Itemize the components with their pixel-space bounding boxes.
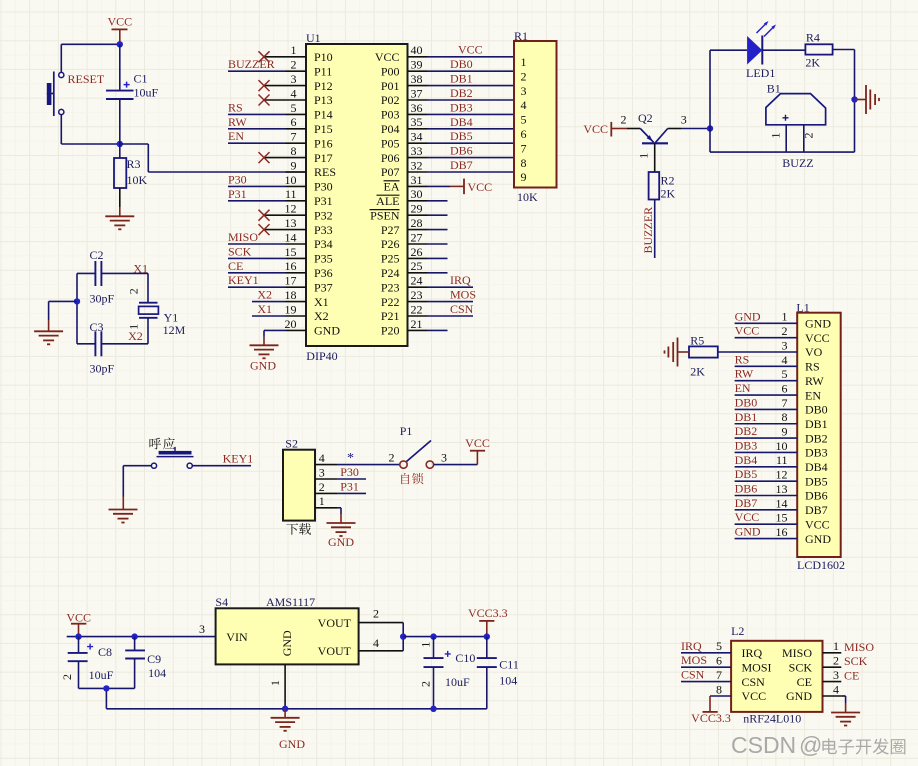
svg-text:P10: P10: [314, 50, 333, 64]
svg-text:15: 15: [776, 511, 788, 525]
U1 pin 23 P22: [381, 288, 428, 309]
connector L1 LCD1602 body: [796, 300, 845, 572]
svg-text:VCC: VCC: [66, 610, 91, 624]
svg-text:SCK: SCK: [844, 654, 868, 668]
U1 pin 36 P03: [381, 101, 428, 122]
regulator S4 AMS1117 body: [199, 595, 359, 664]
svg-text:RW: RW: [228, 115, 247, 129]
svg-text:P14: P14: [314, 108, 333, 122]
svg-text:RS: RS: [228, 100, 243, 114]
svg-text:X1: X1: [133, 261, 148, 275]
L1 pin 3 VO: [782, 338, 823, 359]
svg-text:DB5: DB5: [805, 474, 828, 488]
svg-text:VCC: VCC: [805, 517, 830, 531]
resistor R3: [114, 144, 148, 188]
U1 pin 34 P05: [381, 130, 428, 151]
svg-text:DB4: DB4: [735, 453, 758, 467]
svg-text:2K: 2K: [690, 365, 705, 379]
svg-text:VO: VO: [805, 345, 823, 359]
L1 pin 6 EN: [735, 381, 822, 402]
svg-text:LED1: LED1: [746, 66, 775, 80]
U1 pin 8 P17: [264, 144, 333, 165]
wire R4 to ground branch: [833, 50, 855, 153]
svg-text:16: 16: [285, 259, 297, 273]
svg-text:P00: P00: [381, 64, 400, 78]
svg-text:DIP40: DIP40: [306, 349, 337, 363]
wire stub U1 pin 21: [428, 329, 448, 331]
U1 pin 24 P23: [381, 274, 428, 295]
svg-text:DB6: DB6: [735, 482, 758, 496]
svg-text:5: 5: [782, 367, 788, 381]
svg-text:P12: P12: [314, 79, 333, 93]
svg-text:P36: P36: [314, 266, 333, 280]
svg-text:DB5: DB5: [735, 467, 758, 481]
S4 pin 2 wire: [359, 607, 404, 623]
svg-text:10uF: 10uF: [89, 668, 114, 682]
svg-text:CSN: CSN: [450, 302, 474, 316]
ic L2 nRF24L010 body: [731, 624, 822, 725]
wire U1 pin 39 to R1 with net label DB0: [428, 57, 515, 71]
svg-text:IRQ: IRQ: [742, 646, 763, 660]
wire and net label P30 (U1 pin 10): [228, 172, 286, 186]
led LED1: [746, 21, 776, 80]
svg-text:EN: EN: [735, 381, 751, 395]
ground (below R3): [105, 216, 134, 229]
svg-text:18: 18: [285, 288, 297, 302]
svg-text:3: 3: [833, 668, 839, 682]
svg-text:11: 11: [285, 187, 297, 201]
svg-text:CE: CE: [844, 669, 859, 683]
svg-text:26: 26: [411, 245, 423, 259]
wire and net label X2 (U1 pin 18): [252, 288, 286, 302]
svg-text:14: 14: [285, 230, 297, 244]
U1 pin 11 P31: [285, 187, 333, 208]
wire bottom rail of buzzer loop: [709, 129, 711, 153]
svg-text:L1: L1: [796, 300, 809, 314]
svg-text:34: 34: [411, 130, 423, 144]
svg-text:VCC: VCC: [465, 436, 490, 450]
svg-text:CSN: CSN: [681, 668, 705, 682]
svg-text:11: 11: [776, 453, 788, 467]
wire stub U1 pin 29: [428, 214, 448, 216]
U1 pin 31 EA: [384, 173, 428, 194]
power VCC (U1 pin 31): [428, 179, 493, 195]
L1 pin 13 DB6: [735, 482, 828, 503]
no-connect X on U1 pin 4: [259, 95, 270, 106]
svg-text:DB1: DB1: [450, 72, 473, 86]
ground (S4): [271, 709, 306, 751]
svg-text:1: 1: [782, 310, 788, 324]
wire KEY1 to ground: [123, 466, 151, 510]
svg-text:10: 10: [285, 173, 297, 187]
svg-text:DB2: DB2: [735, 424, 758, 438]
switch RESET (push button): [47, 72, 64, 117]
svg-text:VCC: VCC: [583, 122, 608, 136]
svg-text:R3: R3: [127, 157, 141, 171]
svg-text:32: 32: [411, 158, 423, 172]
svg-text:ALE: ALE: [376, 194, 399, 208]
svg-text:VCC: VCC: [468, 180, 493, 194]
svg-text:2: 2: [521, 69, 527, 83]
U1 pin 33 P06: [381, 144, 428, 165]
svg-text:7: 7: [782, 396, 788, 410]
svg-text:3: 3: [521, 84, 527, 98]
svg-text:C1: C1: [134, 72, 148, 86]
svg-text:LCD1602: LCD1602: [797, 558, 845, 572]
svg-text:14: 14: [776, 496, 788, 510]
svg-text:X1: X1: [257, 302, 272, 316]
svg-text:VOUT: VOUT: [318, 616, 352, 630]
svg-text:P15: P15: [314, 122, 333, 136]
svg-text:CSDN: CSDN: [731, 732, 796, 758]
svg-text:VCC: VCC: [742, 689, 767, 703]
svg-text:DB7: DB7: [735, 496, 758, 510]
svg-text:MISO: MISO: [782, 646, 812, 660]
svg-text:21: 21: [411, 317, 423, 331]
svg-text:5: 5: [521, 113, 527, 127]
U1 pin 5 P14: [286, 101, 333, 122]
wire to crystal ground: [49, 301, 77, 331]
connector S2 body: [283, 436, 315, 534]
wire and net label MOS (U1 pin 23): [428, 288, 477, 302]
L1 pin 16 GND: [735, 525, 832, 546]
wire and net label MISO (U1 pin 14): [228, 230, 286, 244]
svg-text:P04: P04: [381, 122, 400, 136]
svg-text:2: 2: [60, 674, 74, 680]
svg-text:12M: 12M: [163, 323, 186, 337]
svg-text:MISO: MISO: [844, 640, 874, 654]
svg-text:2: 2: [782, 324, 788, 338]
wire and net label RW (U1 pin 6): [228, 115, 286, 129]
wire U1 pin 35 to R1 with net label DB4: [428, 115, 515, 129]
junction dot M: [484, 633, 490, 639]
junction dot B: [117, 141, 123, 147]
svg-text:RS: RS: [735, 352, 750, 366]
svg-text:C9: C9: [147, 652, 161, 666]
svg-text:12: 12: [776, 468, 788, 482]
no-connect X on U1 pin 12: [259, 210, 270, 221]
junction dot E: [74, 298, 80, 304]
svg-text:P02: P02: [381, 93, 400, 107]
L2 pin 1 MISO: [782, 639, 874, 660]
capacitor C2: [77, 248, 148, 306]
U1 pin 20 GND: [285, 317, 341, 338]
svg-text:9: 9: [521, 170, 527, 184]
svg-text:20: 20: [285, 317, 297, 331]
svg-text:25: 25: [411, 259, 423, 273]
wire reset bottom to node B: [61, 115, 120, 144]
capacitor C10: [418, 637, 475, 709]
junction dot D: [851, 96, 857, 102]
svg-text:DB1: DB1: [735, 410, 758, 424]
U1 pin 14 P34: [285, 230, 333, 251]
svg-text:6: 6: [716, 654, 722, 668]
svg-text:40: 40: [411, 43, 423, 57]
L1 pin 9 DB2: [735, 424, 828, 445]
svg-text:27: 27: [411, 230, 423, 244]
U1 pin 17 P37: [285, 274, 333, 295]
wire and net label CSN (U1 pin 22): [428, 302, 474, 316]
svg-text:P31: P31: [228, 187, 247, 201]
U1 pin 18 X1: [285, 288, 329, 309]
wire R2 to BUZZER net: [654, 200, 656, 259]
crystal Y1: [127, 273, 186, 343]
resistor R5: [689, 334, 797, 379]
svg-text:CE: CE: [228, 259, 243, 273]
wire and net label SCK (U1 pin 15): [228, 244, 286, 258]
U1 pin 19 X2: [285, 302, 329, 323]
svg-text:35: 35: [411, 115, 423, 129]
wire and net label BUZZER (U1 pin 2): [228, 57, 286, 71]
transistor Q2: [621, 111, 687, 172]
svg-text:8: 8: [782, 410, 788, 424]
svg-text:15: 15: [285, 245, 297, 259]
svg-text:P33: P33: [314, 223, 333, 237]
svg-text:4: 4: [833, 682, 839, 696]
svg-text:1: 1: [521, 55, 527, 69]
svg-text:MOS: MOS: [450, 288, 476, 302]
svg-text:22: 22: [411, 302, 423, 316]
svg-text:6: 6: [521, 127, 527, 141]
svg-text:VCC: VCC: [735, 510, 760, 524]
svg-text:X1: X1: [314, 295, 329, 309]
svg-text:C3: C3: [90, 320, 104, 334]
U1 pin 35 P04: [381, 115, 428, 136]
svg-text:2K: 2K: [661, 187, 676, 201]
svg-text:2: 2: [389, 451, 395, 465]
svg-text:1: 1: [833, 639, 839, 653]
power VCC (at P1): [465, 436, 490, 464]
svg-text:S2: S2: [285, 436, 298, 450]
wire crystal left rail: [76, 273, 78, 343]
svg-text:R2: R2: [661, 174, 675, 188]
capacitor C1: [106, 44, 159, 144]
wire and net label X1 (U1 pin 19): [252, 302, 286, 316]
U1 pin 9 RES: [286, 158, 337, 179]
svg-text:7: 7: [291, 130, 297, 144]
svg-text:P05: P05: [381, 136, 400, 150]
svg-text:BUZZER: BUZZER: [641, 207, 655, 254]
junction dot F: [75, 633, 81, 639]
svg-text:4: 4: [373, 636, 379, 650]
svg-text:2: 2: [291, 58, 297, 72]
U1 pin 29 PSEN: [370, 202, 428, 223]
svg-text:6: 6: [291, 115, 297, 129]
capacitor C11: [477, 637, 519, 709]
U1 pin 27 P26: [381, 230, 428, 251]
U1 pin 3 P12: [264, 72, 333, 93]
svg-text:2: 2: [833, 654, 839, 668]
svg-text:C10: C10: [455, 651, 475, 665]
svg-text:EN: EN: [805, 388, 821, 402]
S2 pin 1: [315, 494, 338, 508]
power VCC (top left): [107, 15, 132, 45]
svg-text:1: 1: [418, 642, 432, 648]
wire R3 to ground: [119, 188, 121, 216]
wire U1 pin 40 to R1 with net label VCC: [428, 42, 515, 56]
wire stub U1 pin 26: [428, 257, 448, 259]
svg-text:VCC: VCC: [735, 324, 760, 338]
S2 pin 4: [315, 451, 338, 465]
svg-text:DB2: DB2: [805, 431, 828, 445]
wire Q2 collector to node C: [681, 128, 710, 130]
svg-text:10uF: 10uF: [134, 86, 159, 100]
junction dot L: [430, 706, 436, 712]
switch KEY1 push button: [151, 447, 193, 468]
watermark CSDN: [731, 732, 905, 758]
S2 pin 2: [315, 480, 338, 494]
svg-text:10uF: 10uF: [445, 675, 470, 689]
svg-text:P11: P11: [314, 64, 332, 78]
U1 pin 28 P27: [381, 216, 428, 237]
L1 pin 15 VCC: [735, 510, 830, 531]
svg-text:1: 1: [769, 133, 783, 139]
svg-text:IRQ: IRQ: [450, 273, 471, 287]
svg-text:19: 19: [285, 302, 297, 316]
L2 pin 4 GND: [786, 682, 841, 703]
svg-text:GND: GND: [735, 309, 761, 323]
svg-text:1: 1: [319, 494, 325, 508]
svg-text:12: 12: [285, 202, 297, 216]
no-connect X on U1 pin 8: [259, 152, 270, 163]
wire stub U1 pin 27: [428, 243, 448, 245]
ground (U1 pin 20): [250, 345, 279, 372]
svg-text:3: 3: [441, 451, 447, 465]
svg-text:P17: P17: [314, 151, 333, 165]
svg-text:P20: P20: [381, 324, 400, 338]
L1 pin 2 VCC: [735, 324, 830, 345]
U1 pin 12 P32: [264, 202, 333, 223]
wire and net label P31 (U1 pin 11): [228, 187, 286, 201]
svg-text:29: 29: [411, 202, 423, 216]
svg-text:KEY1: KEY1: [228, 273, 259, 287]
power VCC (at C8): [66, 610, 91, 636]
svg-text:GND: GND: [735, 525, 761, 539]
U1 pin 16 P36: [285, 259, 333, 280]
U1 pin 2 P11: [286, 58, 333, 79]
svg-text:RS: RS: [805, 360, 820, 374]
svg-text:P35: P35: [314, 252, 333, 266]
svg-text:37: 37: [411, 86, 423, 100]
svg-text:4: 4: [521, 98, 527, 112]
svg-text:2: 2: [127, 288, 141, 294]
no-connect X on U1 pin 3: [259, 80, 270, 91]
U1 pin 26 P25: [381, 245, 428, 266]
svg-text:31: 31: [411, 173, 423, 187]
U1 pin 10 P30: [285, 173, 333, 194]
resistor R4: [805, 31, 832, 70]
svg-text:MOSI: MOSI: [742, 660, 772, 674]
svg-text:P34: P34: [314, 237, 333, 251]
wire node C up and LED rail: [710, 50, 747, 128]
svg-text:4: 4: [319, 451, 325, 465]
svg-text:24: 24: [411, 274, 423, 288]
no-connect X on U1 pin 13: [259, 224, 270, 235]
U1 pin 7 P16: [286, 130, 333, 151]
svg-text:3: 3: [319, 465, 325, 479]
L1 pin 7 DB0: [735, 395, 828, 416]
S4 pin 4 wire: [359, 636, 404, 651]
svg-text:IRQ: IRQ: [681, 639, 702, 653]
U1 pin 6 P15: [286, 115, 333, 136]
L1 pin 10 DB3: [735, 438, 828, 459]
svg-text:39: 39: [411, 58, 423, 72]
capacitor C9: [125, 637, 166, 689]
wire and net label P31 (S2 pin 2): [338, 479, 366, 493]
svg-text:2: 2: [802, 133, 816, 139]
L2 pin 3 CE: [797, 668, 860, 689]
svg-text:8: 8: [716, 682, 722, 696]
wire VOUT rail: [403, 636, 487, 638]
svg-text:P31: P31: [314, 194, 333, 208]
wire ground rail (bottom): [106, 708, 486, 710]
svg-text:DB6: DB6: [805, 489, 828, 503]
power VCC3.3 (output): [468, 606, 508, 637]
U1 pin 1 P10: [264, 43, 333, 64]
ground (right of R4): [855, 85, 880, 114]
wire U1 pin 33 to R1 with net label DB6: [428, 144, 515, 158]
svg-text:4: 4: [291, 86, 297, 100]
svg-text:P26: P26: [381, 237, 400, 251]
svg-text:P27: P27: [381, 223, 400, 237]
svg-text:13: 13: [285, 216, 297, 230]
svg-text:P1: P1: [400, 424, 413, 438]
ic U1 DIP40 body: [306, 31, 408, 363]
svg-text:PSEN: PSEN: [370, 208, 400, 222]
wire and net label P30 (S2 pin 3): [338, 465, 366, 479]
label text 呼应: [149, 438, 174, 450]
L2 pin 7 CSN: [681, 668, 765, 689]
svg-text:30pF: 30pF: [90, 362, 115, 376]
svg-text:P30: P30: [340, 465, 359, 479]
svg-text:P03: P03: [381, 108, 400, 122]
svg-text:GND: GND: [314, 324, 340, 338]
svg-text:2: 2: [373, 607, 379, 621]
no-connect X on U1 pin 1: [259, 51, 270, 62]
resistor network R1: [514, 29, 557, 204]
wire U1 pin 20 to ground: [264, 330, 286, 345]
svg-text:104: 104: [148, 666, 166, 680]
U1 pin 13 P33: [264, 216, 333, 237]
svg-text:2K: 2K: [805, 56, 820, 70]
svg-text:1: 1: [291, 43, 297, 57]
svg-text:DB0: DB0: [450, 57, 473, 71]
wire C8-C9 bottom link: [79, 688, 135, 708]
svg-text:2: 2: [621, 113, 627, 127]
svg-text:2: 2: [418, 681, 432, 687]
svg-text:1: 1: [268, 680, 282, 686]
wire and net label EN (U1 pin 7): [228, 129, 286, 143]
svg-text:DB1: DB1: [805, 417, 828, 431]
U1 pin 32 P07: [381, 158, 428, 179]
svg-text:MOS: MOS: [681, 653, 707, 667]
U1 pin 15 P35: [285, 245, 333, 266]
svg-text:DB5: DB5: [450, 129, 473, 143]
svg-text:MISO: MISO: [228, 230, 258, 244]
svg-text:GND: GND: [786, 689, 812, 703]
L1 pin 12 DB5: [735, 467, 828, 488]
svg-text:@: @: [799, 732, 822, 758]
junction dot J: [282, 706, 288, 712]
svg-text:S4: S4: [215, 595, 228, 609]
svg-text:17: 17: [285, 274, 297, 288]
wire VCC to reset/C1 node: [61, 44, 120, 72]
svg-text:P16: P16: [314, 136, 333, 150]
junction dot G: [131, 633, 137, 639]
svg-text:C11: C11: [499, 658, 519, 672]
U1 pin 4 P13: [264, 86, 333, 107]
svg-text:9: 9: [291, 158, 297, 172]
